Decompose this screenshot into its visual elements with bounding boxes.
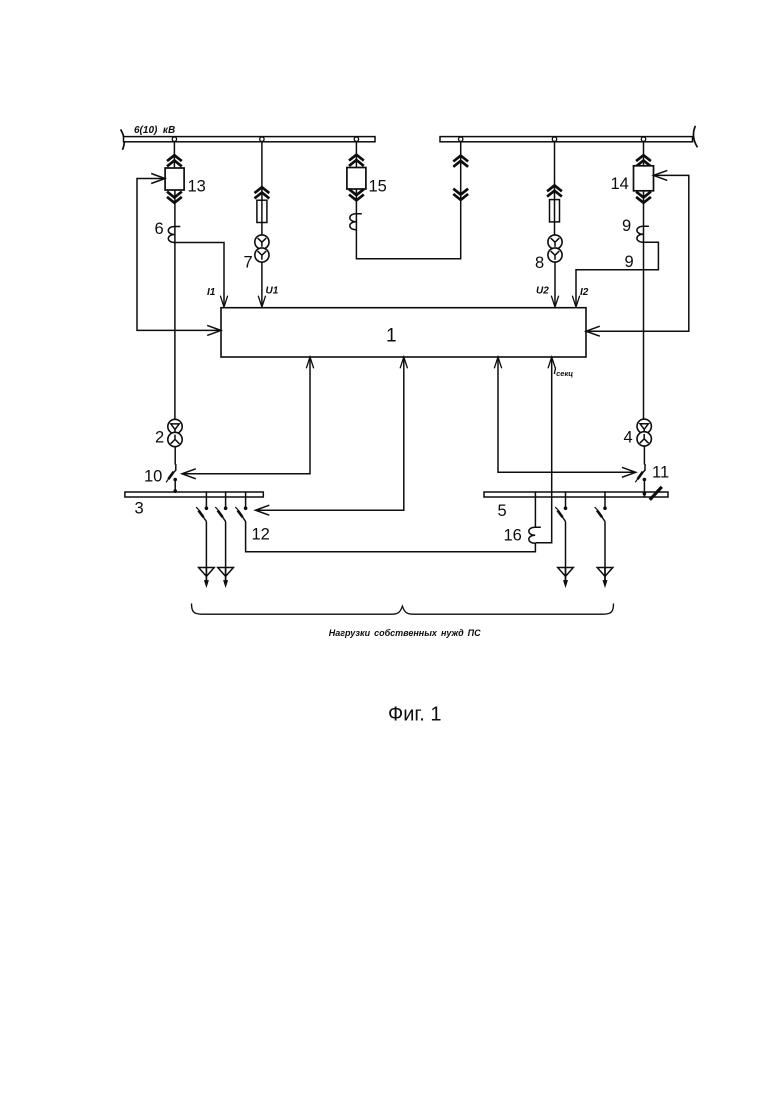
svg-text:3: 3: [135, 500, 144, 518]
feeder switch on busbar 3 (first): [196, 491, 208, 521]
fuse of VT 7 feeder: [257, 200, 267, 222]
feeder switch on busbar 5 (first): [555, 491, 567, 521]
svg-text:14: 14: [611, 175, 629, 193]
svg-text:Фиг. 1: Фиг. 1: [388, 704, 441, 726]
wire: busbar 5 to CT 16: [534, 491, 536, 527]
wire: busbar 5 first feeder down: [565, 522, 567, 582]
wire: busbar II to fuse 8: [554, 142, 556, 236]
control wire: block 1 to disconnector 13: [137, 174, 221, 336]
wire: busbar I to disconnector 13: [173, 142, 175, 169]
chevron arrow down below 13: [167, 192, 182, 203]
current transformer 6: [168, 227, 180, 243]
current transformer 9: [637, 226, 649, 242]
load arrow (busbar 5 second feeder): [597, 568, 613, 589]
svg-text:10: 10: [144, 468, 162, 486]
junction node on busbar II (tie column): [459, 137, 463, 141]
chevron arrow down below 14: [636, 192, 651, 203]
svg-text:U1: U1: [266, 286, 279, 297]
busbar 5 (section II own needs): [484, 492, 668, 497]
chevron arrow up above 13: [167, 155, 182, 166]
sectional current wire Isekts: CT16 to block 1: [535, 357, 555, 543]
voltage transformer 7: [255, 235, 269, 262]
wire: VT8 to block 1 input U2: [551, 262, 558, 307]
svg-text:7: 7: [244, 254, 253, 272]
switch 10: [166, 464, 177, 482]
current transformer on sectionalizer (below 15): [350, 214, 362, 230]
wire: busbar 5 second feeder down: [604, 522, 606, 582]
wire: CT6 secondary to block 1 input I1: [175, 243, 228, 308]
svg-text:6: 6: [155, 220, 164, 238]
svg-text:6(10) кВ: 6(10) кВ: [134, 125, 175, 136]
wire: busbar I to sectionalizer 15: [355, 142, 357, 168]
wire: second feeder down: [225, 522, 227, 582]
svg-text:8: 8: [535, 254, 544, 272]
switch 11: [635, 464, 646, 482]
chevron arrow up above fuse 8: [547, 185, 562, 196]
switch 12 on busbar 3 (reserve link): [235, 491, 247, 521]
link wire 12: busbar 3 to CT16 under busbar 5: [246, 521, 536, 552]
load arrow (first feeder): [199, 568, 215, 589]
chevron arrow down below 15: [349, 189, 364, 200]
junction dot at busbar 5: [643, 492, 647, 496]
chevron arrow up on tie column: [453, 156, 468, 167]
busbar break mark right: [693, 126, 697, 148]
fuse of VT 8 feeder: [550, 200, 560, 222]
wire: transformer 4 to switch 11: [643, 446, 645, 464]
control wire: block 1 to disconnector 14: [586, 170, 689, 336]
junction node on busbar II (column 8): [552, 137, 556, 141]
feeder switch on busbar 3 (second): [215, 491, 227, 521]
junction node on busbar I (column 15): [354, 137, 358, 141]
wire: switch 11 to busbar 5: [643, 480, 645, 498]
wire: 13 down through CT6 to transformer 2: [174, 190, 176, 419]
svg-text:9: 9: [622, 217, 631, 235]
svg-text:U2: U2: [536, 286, 549, 297]
busbar section I (left, 6(10) kV): [124, 137, 376, 142]
svg-text:9: 9: [625, 253, 634, 271]
svg-text:Iсекц: Iсекц: [554, 366, 574, 378]
wire: transformer 2 to switch 10: [174, 447, 176, 465]
feeder switch on busbar 5 (second): [595, 491, 607, 521]
current transformer 16: [529, 527, 541, 543]
wire: 14 down through CT9 to transformer 4: [643, 191, 645, 419]
control wire: block 1 to switch 11: [494, 357, 635, 477]
tie wire: 15 to right busbar column: [356, 142, 460, 259]
chevron arrow up above 14: [636, 155, 651, 166]
wire: busbar I to fuse 7: [261, 142, 263, 236]
control wire: block 1 to switch 10: [182, 357, 314, 479]
wire: first feeder down: [205, 522, 207, 582]
svg-text:I1: I1: [207, 287, 216, 298]
brace: own-needs loads: [192, 604, 614, 615]
wire: busbar II to disconnector 14: [643, 142, 645, 167]
junction node on busbar II (column 14): [641, 137, 645, 141]
control wire: block 1 to switch 12: [256, 357, 408, 515]
chevron arrow down on tie column: [453, 189, 468, 200]
svg-text:5: 5: [498, 502, 507, 520]
chevron arrow up above fuse 7: [255, 187, 270, 198]
load arrow (busbar 5 first feeder): [558, 568, 574, 589]
svg-text:Нагрузки собственных нужд ПС: Нагрузки собственных нужд ПС: [329, 628, 481, 638]
svg-text:12: 12: [252, 526, 270, 544]
transformer 2 (own needs, left): [168, 419, 182, 446]
disconnector 13 body: [165, 168, 184, 190]
busbar section II (right): [440, 137, 693, 142]
wire: switch 10 to busbar 3: [174, 480, 176, 494]
svg-text:16: 16: [504, 527, 522, 545]
wire: CT9 secondary to block 1 input I2: [572, 242, 658, 307]
svg-text:11: 11: [652, 464, 669, 482]
busbar 3 (section I own needs): [125, 492, 263, 497]
svg-text:13: 13: [188, 178, 206, 196]
transformer 4 (own needs, right): [637, 419, 651, 446]
junction node on busbar I (column 13): [172, 137, 176, 141]
junction node on busbar I (column 7): [260, 137, 264, 141]
disconnector 14 body: [634, 166, 654, 191]
svg-text:4: 4: [624, 429, 633, 447]
busbar break mark left: [121, 129, 125, 149]
block 1 (controller): [221, 308, 586, 357]
svg-text:15: 15: [369, 178, 387, 196]
chevron arrow up above 15: [349, 155, 364, 166]
wire: VT7 to block 1 input U1: [258, 262, 265, 307]
svg-text:2: 2: [155, 429, 164, 447]
continuation slash at right end of busbar 5: [650, 487, 662, 500]
junction dot at busbar 3: [173, 489, 177, 493]
load arrow (second feeder): [218, 568, 234, 589]
svg-text:1: 1: [386, 326, 397, 347]
svg-text:I2: I2: [580, 287, 589, 298]
voltage transformer 8: [548, 235, 562, 262]
sectionalizer 15 body: [347, 168, 366, 190]
